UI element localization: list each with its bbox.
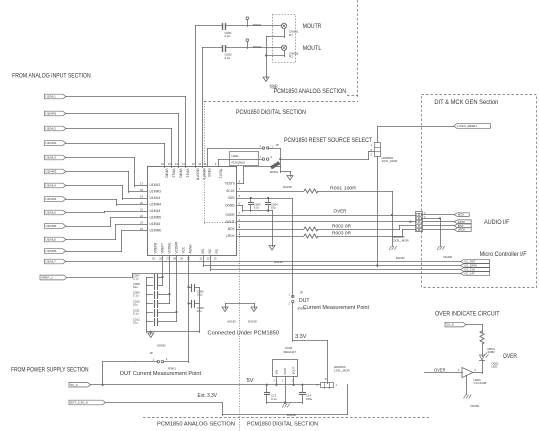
svg-text:VINL2: VINL2 — [172, 169, 176, 178]
svg-text:JP002: JP002 — [270, 170, 279, 174]
wire BCK tag — [422, 225, 455, 227]
svg-text:PCM16932: PCM16932 — [232, 161, 246, 165]
digital section top border — [204, 101, 358, 224]
wire micro row3 — [210, 255, 461, 271]
jumper plug JP002 (shorting block) — [270, 162, 281, 174]
ground DGND (VDD caps) — [269, 210, 284, 264]
svg-text:U1INL5: U1INL5 — [46, 211, 57, 215]
svg-text:PCM1850 DIGITAL SECTION: PCM1850 DIGITAL SECTION — [236, 109, 306, 116]
test point TP002 — [246, 39, 262, 49]
ground AGND (cap stack) — [148, 331, 167, 347]
svg-text:0.1u: 0.1u — [133, 277, 139, 281]
header HDR005 2X3L_MOR — [393, 211, 426, 242]
wire VDD row — [236, 197, 293, 199]
svg-text:U1INR3: U1INR3 — [150, 190, 162, 194]
label Micro Controller I/F — [480, 252, 527, 258]
svg-text:R001 100R: R001 100R — [330, 185, 356, 190]
wire MOUTR row — [195, 25, 282, 27]
IC U1 top pin numbers — [161, 162, 217, 166]
svg-text:AGND: AGND — [270, 86, 278, 90]
wire input row1 to top pin — [65, 96, 186, 168]
wire 3.3V to HDR003 — [292, 340, 328, 384]
wire RESV riser to U001 — [207, 148, 263, 167]
wire header to ground — [422, 217, 441, 247]
connector tag U1INL6 — [44, 237, 66, 242]
svg-text:U1INL4: U1INL4 — [150, 196, 161, 200]
wire DGND pin to cap bus — [236, 205, 273, 212]
connector tag U1INR4 — [44, 197, 66, 202]
wire 5V to JP001 — [102, 361, 137, 386]
svg-text:OVER: OVER — [334, 209, 347, 214]
capacitor C007 0.1u — [133, 274, 164, 283]
svg-text:330R: 330R — [488, 350, 496, 354]
IC U1 PCM1850 body — [148, 167, 237, 256]
connector tag UC_LAT — [461, 272, 490, 276]
svg-text:OVER: OVER — [503, 353, 517, 360]
resistor R004 330R — [480, 331, 496, 354]
svg-text:U1INL3: U1INL3 — [46, 156, 57, 160]
svg-text:PCM1850 RESET SOURCE SELECT: PCM1850 RESET SOURCE SELECT — [284, 138, 372, 144]
svg-text:DOUT: DOUT — [226, 220, 235, 224]
wire reset select vertical — [279, 148, 281, 168]
connector tag EXT_3.3V_A — [69, 400, 105, 405]
header HDR002 1X3L_MOR — [371, 143, 399, 164]
label JP003 — [297, 306, 306, 310]
ground AGND (CN jacks) — [263, 77, 278, 90]
svg-text:U1INL6: U1INL6 — [46, 238, 57, 242]
ground DGND (HDR005) — [437, 246, 453, 259]
RCA jack CN001 — [281, 23, 298, 37]
connector tag U1INR3 — [44, 169, 66, 174]
wire TEST1 riser — [218, 159, 263, 167]
wire cap stack left bus — [146, 277, 148, 333]
svg-text:LRCK: LRCK — [458, 228, 466, 232]
svg-text:MS: MS — [201, 249, 205, 254]
connector tag U1INR2 — [44, 141, 66, 146]
connector tag LRCK — [454, 228, 471, 232]
svg-text:OVER: OVER — [434, 368, 446, 373]
svg-text:DGND: DGND — [225, 204, 235, 208]
wire connected-under bracket — [225, 303, 255, 309]
resistor R002 0R — [304, 223, 400, 231]
svg-text:AGND: AGND — [189, 244, 193, 254]
svg-text:MOUTL: MOUTL — [202, 169, 206, 180]
wire U002 VOUT stub — [292, 376, 294, 386]
svg-text:100u: 100u — [306, 397, 313, 401]
capacitor C005 0.1u — [187, 284, 204, 297]
label 3.3V — [295, 334, 307, 340]
svg-text:U1INR1: U1INR1 — [46, 112, 57, 116]
capacitor C13 0.1u — [264, 384, 277, 404]
IC U1 top pin labels — [165, 169, 223, 181]
IC U001 PCM16932 — [230, 152, 259, 166]
svg-text:2.2u: 2.2u — [225, 34, 231, 38]
jumper row2 circles JP002 — [260, 155, 273, 160]
svg-text:R: R — [325, 378, 327, 381]
svg-text:0.1u: 0.1u — [271, 397, 277, 401]
svg-text:VINR1: VINR1 — [179, 169, 183, 179]
wire LRCK row — [236, 236, 304, 238]
test point TP001 — [246, 17, 262, 27]
ground DGND (R001 net) — [389, 246, 405, 260]
connector tag U1INR5 — [44, 224, 66, 229]
svg-text:DGND: DGND — [283, 185, 293, 189]
wire input row6 to left pin 18 — [65, 171, 148, 193]
wire OVER row — [236, 209, 416, 216]
connector tag 5V_A — [69, 382, 91, 387]
svg-text:VREFB: VREFB — [154, 243, 158, 254]
wire input row2 to top pin — [65, 113, 179, 168]
svg-text:OVER INDICATE CIRCUIT: OVER INDICATE CIRCUIT — [435, 311, 500, 318]
connector tag U1INL3 — [44, 155, 66, 160]
wire MOUTR riser — [195, 25, 197, 168]
dashed box around CN001/CN002 — [273, 15, 296, 63]
wire LED to gate output — [473, 360, 483, 374]
svg-text:EXT_3.3V_A: EXT_3.3V_A — [70, 401, 89, 405]
wire input row12 to left pin 24 — [65, 230, 148, 252]
wire R001 down to header row — [391, 191, 393, 247]
title DIT & MCK GEN Section — [434, 100, 498, 106]
connector tag LOGIC_RESET — [454, 124, 491, 129]
title PCM1850 DIGITAL SECTION (bottom) — [247, 422, 318, 428]
svg-text:U1INR4: U1INR4 — [46, 197, 57, 201]
svg-text:TP001: TP001 — [253, 23, 262, 27]
svg-text:10u: 10u — [133, 285, 138, 289]
wire CN grounds — [265, 28, 285, 79]
svg-text:U1INL5: U1INL5 — [150, 209, 161, 213]
title PCM1850 ANALOG SECTION (bottom) — [157, 422, 235, 428]
svg-text:U1INR5: U1INR5 — [46, 224, 57, 228]
svg-text:DGND: DGND — [287, 413, 297, 417]
wire TEST0 riser — [236, 166, 281, 184]
capacitor C003 0.1u — [248, 198, 261, 212]
svg-text:DGND: DGND — [248, 320, 258, 324]
capacitor C011 0.1u — [133, 309, 178, 318]
regulator U002 REG1117 — [273, 346, 298, 382]
svg-text:10u: 10u — [271, 205, 276, 209]
label DUT — [299, 298, 310, 304]
wire C005/C006 right bus — [199, 287, 201, 333]
svg-text:U1INL1: U1INL1 — [46, 95, 57, 99]
DIT & MCK GEN section box — [422, 95, 537, 288]
svg-text:SCLK: SCLK — [226, 189, 235, 193]
label AUDIO I/F — [484, 219, 510, 226]
title PCM1850 RESET SOURCE SELECT — [284, 138, 372, 144]
label JP (top) — [272, 143, 279, 148]
svg-text:1X3L_MOR: 1X3L_MOR — [382, 159, 399, 163]
connector tag BCK — [454, 224, 471, 228]
wire SCLK row — [236, 191, 304, 193]
svg-text:MOUTL: MOUTL — [303, 45, 322, 52]
svg-text:U1INL7: U1INL7 — [46, 260, 57, 264]
svg-text:VCOMR: VCOMR — [175, 241, 179, 254]
svg-text:3.3V: 3.3V — [295, 334, 307, 340]
ground DGND (reset select) — [280, 166, 293, 189]
capacitor C012 10u — [133, 318, 177, 327]
LED D001 — [479, 353, 499, 369]
wire input row9 to left pin 21 — [65, 211, 148, 213]
svg-text:NC: NC — [208, 248, 212, 253]
bottom section border — [143, 417, 431, 419]
wire input row8 to left pin 20 — [65, 199, 148, 206]
connector tag U1INR1 — [44, 111, 66, 116]
wire cap pair riser 1 — [162, 255, 164, 286]
connector tag U1INL4 — [44, 183, 66, 188]
svg-text:DGND: DGND — [274, 260, 284, 264]
label Ext. 3.3V — [198, 393, 218, 399]
svg-text:UC_LAT: UC_LAT — [464, 272, 475, 276]
svg-text:DUT Current Measurement Point: DUT Current Measurement Point — [120, 371, 201, 377]
label Current Measurement Point — [303, 305, 370, 311]
svg-text:U1INL2: U1INL2 — [46, 127, 57, 131]
wire LRCK tag — [422, 229, 455, 231]
svg-text:AGND: AGND — [157, 343, 167, 347]
wire HDR002 top to LOGIC_RESET — [377, 126, 454, 143]
IC U1 left pin labels — [150, 183, 162, 233]
svg-text:DGND: DGND — [443, 255, 453, 259]
svg-text:VOUT: VOUT — [292, 366, 296, 374]
label Connected Under PCM1850 — [208, 330, 280, 336]
svg-text:PD: PD — [215, 248, 219, 253]
analog/digital divider bottom — [239, 224, 241, 430]
connector tag UC_DATA — [461, 264, 490, 268]
svg-text:0.1u: 0.1u — [133, 294, 139, 298]
capacitor C004 10u — [265, 198, 278, 212]
wire input row4 to top pin — [65, 143, 165, 168]
svg-text:0.1u: 0.1u — [133, 312, 139, 316]
svg-text:JP001: JP001 — [167, 367, 176, 371]
svg-text:5V_A: 5V_A — [70, 383, 78, 387]
wire BCK jog to header — [399, 225, 416, 230]
connector tag U1INL1 — [44, 94, 66, 99]
svg-text:U1INL3: U1INL3 — [150, 183, 161, 187]
wire cap stack bottom bus — [146, 331, 200, 333]
svg-text:RESV: RESV — [207, 169, 211, 179]
svg-text:10u: 10u — [133, 303, 138, 307]
svg-text:U001: U001 — [232, 154, 240, 158]
svg-text:U1INR6: U1INR6 — [150, 229, 162, 233]
title PCM1850 DIGITAL SECTION (top) — [236, 109, 306, 116]
ground DGND (connected under) — [248, 307, 258, 324]
wire VCC riser — [188, 255, 190, 363]
connector tag UC_CLK — [461, 268, 490, 272]
wire input row7 to left pin 19 — [65, 185, 148, 200]
svg-text:LOGIC_RESET: LOGIC_RESET — [457, 124, 477, 128]
svg-text:U1INL6: U1INL6 — [150, 222, 161, 226]
connector tag DATA — [454, 220, 471, 224]
svg-text:1X3L_MOR: 1X3L_MOR — [334, 369, 351, 373]
svg-text:DIT & MCK GEN Section: DIT & MCK GEN Section — [434, 100, 498, 106]
wire gate ground stub — [466, 375, 468, 395]
svg-text:PCM1850 DIGITAL SECTION: PCM1850 DIGITAL SECTION — [247, 422, 318, 428]
svg-text:REG1117: REG1117 — [284, 350, 297, 354]
ground DGND (regulator) — [282, 404, 297, 417]
capacitor C008 10u — [133, 282, 163, 290]
svg-text:U1INR4: U1INR4 — [150, 203, 162, 207]
svg-text:VINL1: VINL1 — [186, 169, 190, 178]
svg-text:DUT: DUT — [299, 298, 310, 304]
wire U002 GND stub — [285, 376, 287, 404]
wire 5V_D to R004 — [466, 324, 483, 333]
svg-text:2X3L_MOR: 2X3L_MOR — [393, 238, 410, 242]
svg-text:JP: JP — [150, 351, 153, 355]
header HDR003 1X3L_MOR — [317, 365, 351, 389]
svg-text:TP002: TP002 — [253, 45, 262, 49]
svg-text:DGND: DGND — [471, 404, 481, 408]
svg-text:FROM POWER SUPPLY SECTION: FROM POWER SUPPLY SECTION — [11, 367, 89, 374]
svg-text:GND: GND — [283, 368, 287, 374]
svg-text:RJ: RJ — [289, 55, 293, 59]
wire input row11 to left pin 23 — [65, 224, 148, 240]
label JP (analog jumper) — [150, 351, 153, 355]
wire reset to HDR002 — [280, 151, 375, 160]
svg-text:Ext. 3.3V: Ext. 3.3V — [198, 393, 218, 399]
title OVER INDICATE CIRCUIT — [435, 311, 500, 318]
connector tag 5V_D — [445, 322, 466, 327]
svg-text:PCM1850 ANALOG SECTION: PCM1850 ANALOG SECTION — [274, 88, 347, 95]
svg-text:VCC: VCC — [182, 246, 186, 253]
svg-text:U1INR3: U1INR3 — [46, 170, 57, 174]
capacitor C002 2.2u — [223, 45, 233, 60]
RCA jack CN002 — [281, 45, 298, 59]
connector tag U1INL2 — [44, 126, 66, 131]
svg-text:MOUTR: MOUTR — [303, 23, 322, 30]
svg-text:PCM1850 ANALOG SECTION: PCM1850 ANALOG SECTION — [157, 422, 235, 428]
wire cap bottom bus (regulator) — [266, 401, 303, 403]
wire MOUTL row — [202, 47, 282, 49]
svg-text:Connected Under PCM1850: Connected Under PCM1850 — [208, 330, 280, 336]
wire input row10 to left pin 22 — [65, 217, 148, 227]
svg-text:VINR2: VINR2 — [165, 169, 169, 179]
svg-text:OVER: OVER — [226, 213, 236, 217]
svg-text:LRCK: LRCK — [226, 234, 235, 238]
svg-text:VIN: VIN — [275, 370, 279, 375]
capacitor C009 0.1u — [133, 291, 171, 300]
label DUT Current Measurement Point (5V) — [120, 371, 201, 377]
connector tag U1INL7 — [44, 259, 66, 264]
svg-text:0.1u: 0.1u — [197, 293, 203, 297]
svg-text:C7C1438: C7C1438 — [474, 381, 487, 385]
capacitor C14 100u — [299, 384, 313, 404]
wire LRCK jog to header — [402, 229, 416, 237]
IC U1 bottom pin labels — [154, 241, 220, 254]
wire BCK row — [236, 229, 304, 231]
label JP (DUT) — [300, 291, 303, 295]
IC U1 right pin numbers — [239, 180, 241, 237]
label OVER (LED) — [503, 353, 517, 360]
jumper row1 pin1 circles — [260, 144, 282, 149]
analog section border (top right) — [347, 0, 358, 97]
title FROM ANALOG INPUT SECTION — [12, 73, 91, 80]
label MOUTL — [303, 45, 322, 52]
svg-text:VREF_J: VREF_J — [41, 276, 53, 280]
connector tag UC_RST — [461, 260, 490, 264]
svg-text:JP: JP — [300, 291, 303, 295]
connector tag VREF_J — [40, 275, 67, 280]
gate U003 inverter — [458, 368, 487, 386]
svg-text:VREFT: VREFT — [161, 243, 165, 254]
connector tag U1INL5 — [44, 210, 66, 215]
capacitor C001 2.2u — [223, 23, 233, 38]
svg-text:R003 0R: R003 0R — [332, 230, 351, 235]
IC U1 left pin numbers — [140, 181, 143, 231]
wire VDD 3.3V riser — [292, 198, 294, 342]
jumper JP001 analog current — [135, 357, 189, 370]
svg-text:5V_D: 5V_D — [446, 323, 454, 327]
svg-text:TEST1: TEST1 — [219, 169, 223, 179]
wire input row5 to left pin 17 — [65, 157, 148, 187]
wire 5V rail — [90, 384, 321, 386]
ground AGND (connected under) — [222, 307, 237, 324]
svg-text:Micro Controller I/F: Micro Controller I/F — [480, 252, 527, 258]
wire micro row4 — [67, 273, 461, 278]
wire MCK tag — [422, 214, 455, 216]
svg-text:MCK: MCK — [458, 213, 464, 217]
wire micro row1 — [65, 261, 461, 263]
svg-text:0.1u: 0.1u — [254, 205, 260, 209]
connector tag MCK — [454, 213, 469, 217]
wire DATA tag — [422, 221, 455, 223]
svg-text:U1INR2: U1INR2 — [46, 141, 57, 145]
wire R004 to LED — [482, 344, 484, 357]
svg-text:RJ: RJ — [289, 33, 293, 37]
svg-text:R002 0R: R002 0R — [332, 223, 351, 228]
IC U1 bottom pin numbers — [152, 257, 217, 261]
ground DGND (gate) — [464, 395, 481, 408]
svg-text:Current Measurement Point: Current Measurement Point — [303, 305, 370, 311]
svg-text:VCOML: VCOML — [168, 242, 172, 254]
wire MOUTL riser — [202, 47, 204, 168]
wire OVER gate input — [424, 368, 463, 373]
svg-text:AGND: AGND — [227, 320, 237, 324]
svg-text:DGND: DGND — [396, 256, 406, 260]
resistor R003 0R — [304, 230, 403, 238]
wire DOUT row — [236, 221, 416, 223]
wire cap pair riser 2 — [169, 255, 171, 304]
jumper JP003 DUT current — [289, 293, 294, 306]
wire U002 VIN stub — [276, 376, 278, 386]
wire cap pair riser 3 — [176, 255, 178, 322]
svg-text:U1INR6: U1INR6 — [46, 249, 57, 253]
title PCM1850 ANALOG SECTION (top) — [269, 83, 346, 95]
label 5V — [247, 378, 254, 384]
svg-text:AUDIO I/F: AUDIO I/F — [484, 219, 510, 226]
svg-text:BCK: BCK — [228, 227, 235, 231]
wire micro row2 — [203, 255, 461, 267]
svg-text:FROM ANALOG INPUT SECTION: FROM ANALOG INPUT SECTION — [12, 73, 91, 80]
wire Ext 3.3V — [105, 384, 348, 416]
title FROM POWER SUPPLY SECTION — [11, 367, 89, 374]
svg-text:LED: LED — [492, 365, 499, 369]
capacitor C006 10u — [187, 300, 204, 313]
svg-text:MOUTR: MOUTR — [196, 169, 200, 181]
svg-text:JP: JP — [276, 143, 279, 147]
svg-text:U1INR5: U1INR5 — [150, 216, 162, 220]
resistor R001 100R — [304, 185, 393, 193]
capacitor C010 10u — [133, 300, 170, 309]
svg-text:U1INL4: U1INL4 — [46, 184, 57, 188]
IC U1 right pin labels — [225, 182, 236, 239]
svg-text:TEST0: TEST0 — [225, 182, 235, 186]
label MOUTR — [303, 23, 322, 30]
wire HDR002 bottom to micro row — [376, 156, 378, 267]
wire input row3 to top pin — [65, 128, 172, 168]
svg-text:5V: 5V — [247, 378, 254, 384]
svg-text:2.2u: 2.2u — [225, 56, 231, 60]
connector tag U1INR6 — [44, 249, 66, 254]
svg-text:VDD: VDD — [228, 196, 235, 200]
svg-text:10u: 10u — [133, 321, 138, 325]
